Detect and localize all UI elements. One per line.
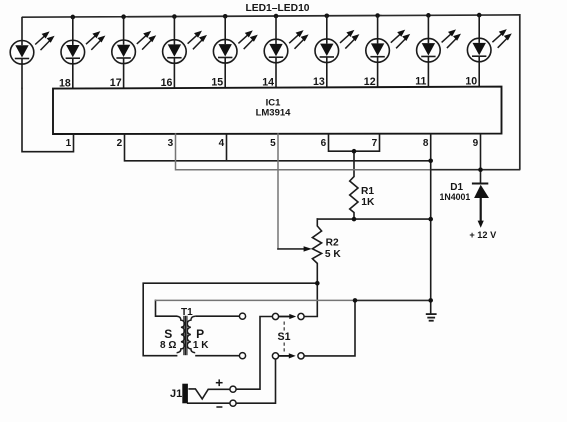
svg-text:7: 7 (372, 138, 378, 149)
svg-text:13: 13 (313, 76, 325, 88)
svg-text:8 Ω: 8 Ω (160, 340, 176, 351)
svg-text:10: 10 (465, 75, 477, 87)
svg-text:18: 18 (59, 77, 71, 89)
svg-text:S1: S1 (278, 331, 291, 343)
svg-text:14: 14 (262, 76, 274, 88)
svg-text:3: 3 (168, 138, 174, 149)
svg-text:16: 16 (161, 77, 173, 89)
svg-text:LM3914: LM3914 (256, 107, 292, 118)
svg-text:12: 12 (364, 76, 376, 88)
svg-text:2: 2 (117, 138, 123, 149)
svg-text:17: 17 (110, 77, 122, 89)
svg-text:15: 15 (211, 77, 223, 89)
svg-text:8: 8 (423, 138, 429, 149)
svg-text:11: 11 (415, 76, 426, 88)
svg-text:6: 6 (321, 138, 327, 149)
svg-text:1 K: 1 K (193, 340, 209, 351)
svg-text:4: 4 (219, 138, 225, 149)
svg-text:5 K: 5 K (325, 249, 341, 260)
svg-text:+ 12 V: + 12 V (469, 230, 497, 240)
svg-text:R2: R2 (326, 238, 339, 249)
svg-text:9: 9 (473, 138, 479, 149)
svg-text:5: 5 (270, 138, 276, 149)
svg-text:J1: J1 (170, 388, 182, 400)
svg-text:T1: T1 (181, 307, 193, 318)
svg-text:LED1–LED10: LED1–LED10 (245, 3, 309, 14)
svg-text:R1: R1 (361, 186, 374, 197)
svg-text:1K: 1K (361, 197, 375, 208)
svg-text:1N4001: 1N4001 (440, 192, 471, 202)
svg-text:1: 1 (66, 138, 72, 149)
